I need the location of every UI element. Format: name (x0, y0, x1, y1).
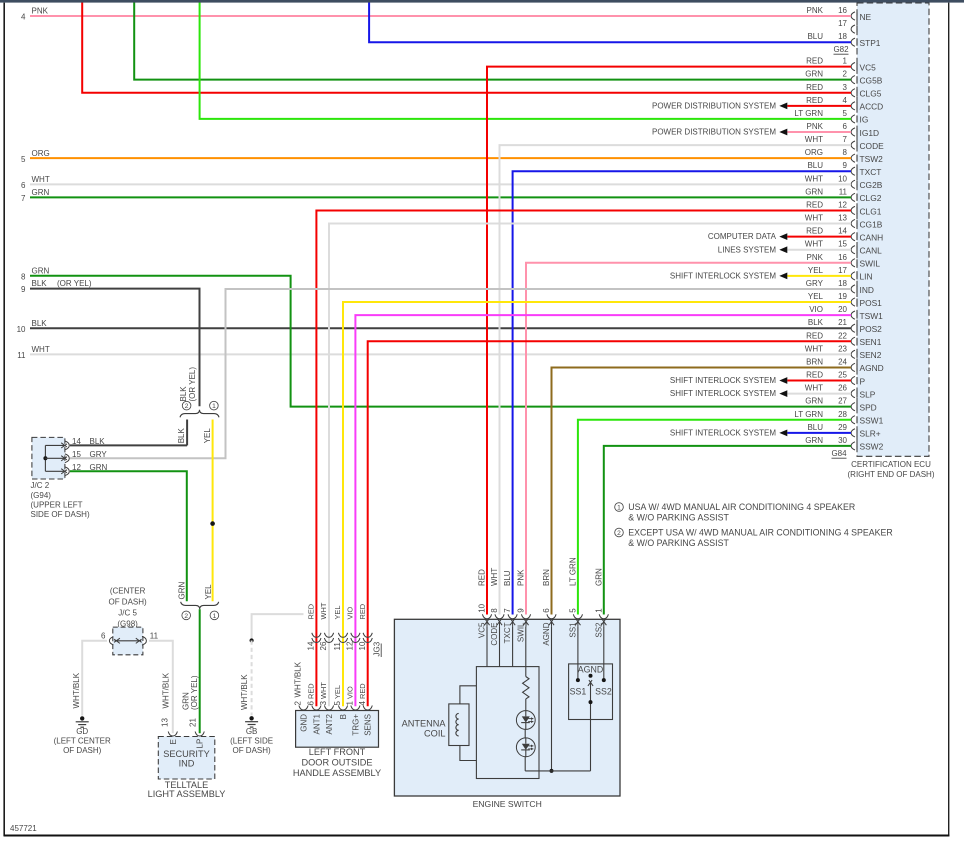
svg-text:457721: 457721 (10, 824, 37, 833)
inline connector JG3 cups (312, 633, 321, 638)
svg-text:1: 1 (843, 57, 848, 66)
ECU pin 1 VC5 (851, 63, 855, 71)
antenna coil top lead (460, 686, 477, 704)
svg-text:BLK: BLK (32, 319, 48, 328)
svg-text:POWER DISTRIBUTION SYSTEM: POWER DISTRIBUTION SYSTEM (652, 101, 776, 110)
svg-text:18: 18 (838, 279, 847, 288)
ECU pin 12 CLG1 (851, 206, 855, 214)
top wire GRN to ECU CG5B (134, 3, 851, 80)
svg-text:17: 17 (838, 19, 847, 28)
svg-text:BLU: BLU (807, 423, 823, 432)
svg-text:SEN1: SEN1 (860, 337, 882, 347)
ECU pin 15 CANL (851, 246, 855, 254)
wire WHT/BLK J/C5 pin6 to ground GD (82, 641, 107, 716)
svg-text:SIDE OF DASH): SIDE OF DASH) (31, 510, 90, 519)
svg-text:5: 5 (21, 155, 26, 164)
svg-text:2: 2 (185, 403, 189, 410)
wire BLK option 2 branch (186, 420, 188, 446)
svg-text:(G94): (G94) (31, 491, 52, 500)
svg-text:RED: RED (806, 227, 823, 236)
wire BLK J/C2 pin14 to option brace (70, 444, 187, 446)
ECU pin 29 SLR+ (851, 429, 855, 437)
svg-text:28: 28 (838, 410, 847, 419)
svg-text:GND: GND (300, 714, 309, 732)
svg-text:10: 10 (478, 603, 487, 612)
svg-text:RED: RED (806, 96, 823, 105)
circled 2 (option split) (182, 401, 191, 410)
svg-text:GRN: GRN (32, 188, 50, 197)
wire 5 ORG to ECU TSW2 (30, 157, 851, 159)
svg-text:USA W/ 4WD MANUAL AIR CONDITIO: USA W/ 4WD MANUAL AIR CONDITIONING 4 SPE… (628, 502, 855, 512)
wire pin14 to COMPUTER DATA arrow (787, 236, 851, 238)
inter-LED line (524, 729, 526, 738)
antenna coil box (449, 704, 469, 746)
svg-text:2: 2 (617, 530, 621, 537)
svg-text:BLK: BLK (177, 428, 186, 444)
svg-text:WHT/BLK: WHT/BLK (161, 672, 170, 708)
option merge overbrace (181, 602, 219, 609)
svg-text:G84: G84 (831, 449, 847, 458)
svg-text:6: 6 (21, 181, 26, 190)
LED 1 (transponder) (516, 711, 535, 730)
svg-text:2: 2 (293, 701, 302, 706)
svg-text:11: 11 (17, 351, 26, 360)
svg-text:POS2: POS2 (860, 324, 883, 334)
resistor (SWIL line) (523, 677, 529, 699)
junction dot GB branch (250, 638, 254, 642)
engine internal line TXCT (512, 627, 514, 667)
ECU pin 2 CG5B (851, 76, 855, 84)
svg-text:(OR YEL): (OR YEL) (188, 367, 197, 402)
svg-text:4: 4 (21, 13, 26, 22)
svg-text:IG1D: IG1D (860, 128, 880, 138)
svg-text:TSW2: TSW2 (860, 154, 884, 164)
ECU pin 19 POS1 (851, 298, 855, 306)
wire CLG1 RED pin12 to door handle ANT1 (316, 210, 851, 706)
svg-text:5: 5 (333, 701, 342, 706)
SS switch block (569, 664, 613, 720)
svg-text:VC5: VC5 (478, 622, 487, 638)
svg-text:WHT: WHT (805, 214, 823, 223)
svg-text:(OR YEL): (OR YEL) (190, 675, 199, 710)
svg-text:3: 3 (319, 701, 328, 706)
svg-text:CG5B: CG5B (860, 75, 883, 85)
ECU pin 17 LIN (851, 272, 855, 280)
ECU pin 9 TXCT (851, 167, 855, 175)
svg-text:LT GRN: LT GRN (794, 410, 823, 419)
antenna coil inductor symbol (456, 713, 459, 736)
svg-text:CODE: CODE (490, 623, 499, 646)
svg-text:YEL: YEL (204, 584, 213, 600)
wire 8 GRN to ECU SPD (30, 276, 851, 407)
ECU pin 16 NE (G82) (851, 12, 855, 20)
svg-text:GRN: GRN (805, 397, 823, 406)
svg-text:WHT: WHT (32, 345, 50, 354)
engine internal line SS2 (603, 627, 605, 681)
svg-text:P: P (860, 376, 866, 386)
svg-text:PNK: PNK (32, 7, 49, 16)
svg-text:RED: RED (806, 331, 823, 340)
svg-text:BLU: BLU (807, 161, 823, 170)
AGND bus up to switch contact (590, 702, 592, 771)
svg-text:BLK: BLK (179, 386, 188, 402)
antenna coil bottom lead (460, 746, 477, 761)
engine switch pin arrows (484, 619, 488, 625)
svg-text:RED: RED (478, 569, 487, 586)
svg-text:23: 23 (838, 344, 847, 353)
J/C 5 internal double arrow (115, 640, 142, 642)
svg-text:12: 12 (838, 200, 847, 209)
svg-text:10: 10 (17, 325, 26, 334)
svg-text:POWER DISTRIBUTION SYSTEM: POWER DISTRIBUTION SYSTEM (652, 128, 776, 137)
wire SSW1 LT GRN pin28 to engine switch SS1 (578, 420, 851, 615)
wire YEL option 1 branch (212, 420, 214, 602)
svg-text:(OR YEL): (OR YEL) (57, 279, 92, 288)
engine switch box (394, 619, 620, 796)
ECU pin 23 SEN2 (851, 350, 855, 358)
svg-text:15: 15 (838, 240, 847, 249)
svg-text:RED: RED (307, 683, 316, 699)
svg-text:LT GRN: LT GRN (794, 109, 823, 118)
svg-text:5: 5 (569, 608, 578, 613)
svg-text:TSW1: TSW1 (860, 311, 884, 321)
wire pin26 to SHIFT INTERLOCK SYSTEM arrow (787, 393, 851, 395)
svg-text:7: 7 (503, 608, 512, 613)
wire 4 PNK to ECU NE (30, 15, 851, 17)
svg-text:POS1: POS1 (860, 298, 883, 308)
svg-text:(LEFT SIDE: (LEFT SIDE (230, 737, 273, 746)
svg-text:1: 1 (213, 613, 217, 620)
top wire LT GRN to ECU IG (200, 3, 851, 119)
svg-text:20: 20 (838, 305, 847, 314)
svg-text:LEFT FRONT: LEFT FRONT (309, 747, 366, 757)
engine internal line AGND (551, 627, 553, 771)
ECU pin 17 (empty) (G82) (851, 25, 855, 33)
svg-text:21: 21 (838, 318, 847, 327)
wire IND GRY pin18 to J/C 2 pin 15 (70, 289, 851, 458)
svg-text:16: 16 (838, 253, 847, 262)
svg-text:AGND: AGND (542, 622, 551, 645)
wire pin6 to POWER DISTRIBUTION SYSTEM arrow (787, 131, 851, 133)
svg-text:PNK: PNK (807, 253, 824, 262)
svg-text:1: 1 (594, 608, 603, 613)
wire pin29 to SHIFT INTERLOCK SYSTEM arrow (787, 432, 851, 434)
svg-text:YEL: YEL (808, 266, 824, 275)
svg-text:WHT/BLK: WHT/BLK (240, 674, 249, 710)
svg-text:PNK: PNK (807, 6, 824, 15)
svg-text:3: 3 (843, 83, 848, 92)
svg-text:ENGINE SWITCH: ENGINE SWITCH (473, 799, 542, 809)
ECU pin 4 ACCD (851, 102, 855, 110)
J/C 5 box (113, 627, 143, 655)
svg-text:1: 1 (346, 701, 355, 706)
svg-text:BLU: BLU (807, 32, 823, 41)
AGND contact dot (589, 674, 593, 678)
svg-text:WHT: WHT (490, 568, 499, 586)
ECU pin 14 CANH (851, 233, 855, 241)
engine internal line VC5 (486, 627, 488, 667)
svg-text:E: E (169, 739, 178, 744)
svg-text:VIO: VIO (346, 686, 355, 699)
svg-text:26: 26 (319, 641, 328, 650)
svg-text:14: 14 (307, 641, 316, 650)
svg-text:SEN2: SEN2 (860, 350, 882, 360)
svg-text:WHT: WHT (319, 602, 328, 619)
svg-text:& W/O PARKING ASSIST: & W/O PARKING ASSIST (628, 513, 729, 523)
svg-text:8: 8 (843, 148, 848, 157)
wire SWIL PNK pin16 to engine switch (526, 263, 851, 615)
certification ECU connector box (right end of dash) (857, 3, 929, 456)
wire pin17 to SHIFT INTERLOCK SYSTEM arrow (787, 275, 851, 277)
wire WHT/BLK J/C5 pin11 to security E (149, 641, 173, 733)
svg-text:CANH: CANH (860, 232, 884, 242)
svg-text:GRN: GRN (805, 436, 823, 445)
svg-text:26: 26 (838, 384, 847, 393)
wire pin4 to POWER DISTRIBUTION SYSTEM arrow (787, 105, 851, 107)
svg-text:SHIFT INTERLOCK SYSTEM: SHIFT INTERLOCK SYSTEM (670, 389, 776, 398)
wire VC5 RED pin1 to engine switch (487, 67, 851, 615)
svg-text:1: 1 (212, 403, 216, 410)
svg-text:STP1: STP1 (860, 38, 881, 48)
security pin E cup (168, 732, 177, 737)
ground GB symbol (249, 716, 253, 720)
door handle pin cups (299, 706, 308, 711)
wire SSW2 GRN pin30 to engine switch SS2 (604, 446, 851, 615)
svg-text:11: 11 (333, 642, 342, 651)
J/C 2 internal bus (44, 445, 46, 471)
top wire BLU to ECU STP1 (369, 3, 851, 43)
wire 11 WHT to ECU SEN2 (30, 353, 851, 355)
left page border (3, 3, 5, 837)
right page border (948, 3, 950, 837)
svg-text:VIO: VIO (346, 607, 355, 620)
svg-text:11: 11 (839, 187, 848, 196)
svg-text:25: 25 (838, 371, 847, 380)
svg-text:SHIFT INTERLOCK SYSTEM: SHIFT INTERLOCK SYSTEM (670, 271, 776, 280)
svg-text:IG: IG (860, 115, 869, 125)
svg-text:8: 8 (21, 272, 26, 281)
svg-text:IND: IND (179, 759, 195, 769)
svg-text:GRY: GRY (90, 450, 108, 459)
svg-text:COMPUTER DATA: COMPUTER DATA (708, 232, 777, 241)
ECU pin 25 P (851, 376, 855, 384)
movable contact arrow (590, 682, 592, 702)
wire CG1B WHT pin13 to door handle ANT2 (329, 224, 851, 707)
svg-text:EXCEPT USA W/ 4WD MANUAL AIR C: EXCEPT USA W/ 4WD MANUAL AIR CONDITIONIN… (628, 528, 892, 538)
svg-text:14: 14 (838, 227, 847, 236)
svg-text:16: 16 (838, 6, 847, 15)
svg-text:7: 7 (843, 135, 848, 144)
svg-text:6: 6 (101, 632, 106, 641)
svg-text:7: 7 (21, 194, 26, 203)
svg-text:HANDLE ASSEMBLY: HANDLE ASSEMBLY (293, 768, 381, 778)
svg-text:SLP: SLP (860, 389, 876, 399)
ECU pin 7 CODE (851, 141, 855, 149)
svg-text:24: 24 (838, 357, 847, 366)
svg-text:TXCT: TXCT (860, 167, 882, 177)
svg-text:VC5: VC5 (860, 62, 877, 72)
ground GD symbol (80, 716, 84, 720)
ECU pin 8 TSW2 (851, 154, 855, 162)
svg-text:SENS: SENS (364, 714, 373, 736)
svg-text:RED: RED (307, 604, 316, 620)
wire 10 BLK to ECU POS2 (30, 327, 851, 329)
wire AGND BRN pin24 to engine switch (552, 367, 852, 614)
svg-text:RED: RED (806, 57, 823, 66)
svg-text:29: 29 (838, 423, 847, 432)
transponder key amplifier module (476, 667, 539, 779)
svg-text:SHIFT INTERLOCK SYSTEM: SHIFT INTERLOCK SYSTEM (670, 428, 776, 437)
circled 1 (option split) (210, 401, 219, 410)
svg-text:(CENTER: (CENTER (110, 587, 146, 596)
svg-text:GRN: GRN (805, 70, 823, 79)
engine internal line SWIL (525, 627, 527, 677)
wire 9 BLK (OR YEL) (30, 289, 200, 407)
svg-text:OF DASH): OF DASH) (63, 746, 102, 755)
ECU pin 5 IG (851, 115, 855, 123)
svg-text:GRN: GRN (594, 568, 603, 586)
security indicator box (158, 737, 215, 780)
bottom page border (4, 835, 950, 837)
svg-text:LIGHT ASSEMBLY: LIGHT ASSEMBLY (148, 789, 226, 799)
svg-text:ORG: ORG (32, 149, 50, 158)
svg-text:SWIL: SWIL (517, 622, 526, 642)
svg-text:SSW2: SSW2 (860, 442, 884, 452)
svg-text:PNK: PNK (807, 122, 824, 131)
svg-text:ANTENNA: ANTENNA (402, 719, 447, 729)
svg-text:J/C 5: J/C 5 (118, 609, 137, 618)
svg-text:RED: RED (358, 683, 367, 699)
J/C 2 pin 14 BLK (45, 444, 64, 446)
svg-text:LT GRN: LT GRN (569, 557, 578, 586)
svg-text:6: 6 (843, 122, 848, 131)
svg-text:GRN: GRN (805, 187, 823, 196)
svg-text:17: 17 (838, 266, 847, 275)
svg-text:21: 21 (189, 718, 198, 727)
svg-text:30: 30 (838, 436, 847, 445)
svg-text:13: 13 (161, 718, 170, 727)
svg-text:RED: RED (806, 83, 823, 92)
svg-text:G82: G82 (833, 45, 849, 54)
svg-text:SECURITY: SECURITY (163, 749, 209, 759)
top border band (0, 0, 964, 3)
svg-text:WHT: WHT (32, 175, 50, 184)
svg-text:WHT: WHT (805, 240, 823, 249)
splice dot on YEL wire (210, 521, 215, 526)
left front door outside handle box (296, 711, 379, 748)
svg-text:SS2: SS2 (595, 687, 612, 697)
svg-text:NE: NE (860, 12, 872, 22)
svg-text:SPD: SPD (860, 402, 877, 412)
engine switch pin cups (482, 614, 491, 619)
ECU pin 20 TSW1 (851, 311, 855, 319)
svg-text:TRG+: TRG+ (351, 714, 360, 736)
svg-text:PNK: PNK (517, 569, 526, 586)
svg-text:12: 12 (346, 641, 355, 650)
option split underbrace (180, 410, 219, 418)
dashed WHT/BLK to GB ground (251, 641, 253, 716)
svg-text:LIN: LIN (860, 272, 873, 282)
svg-text:YEL: YEL (808, 292, 824, 301)
svg-text:SWIL: SWIL (860, 259, 881, 269)
ECU pin 3 CLG5 (851, 89, 855, 97)
svg-text:GD: GD (76, 727, 88, 736)
wire TXCT BLU pin9 to engine switch (513, 171, 851, 614)
svg-text:CLG2: CLG2 (860, 193, 882, 203)
svg-text:WHT: WHT (805, 174, 823, 183)
svg-text:11: 11 (150, 632, 159, 641)
svg-text:9: 9 (843, 161, 848, 170)
svg-text:RED: RED (358, 604, 367, 620)
svg-text:SLR+: SLR+ (860, 429, 881, 439)
svg-text:8: 8 (490, 608, 499, 613)
ECU pin 22 SEN1 (851, 337, 855, 345)
J/C 5 pin 6 cup (109, 637, 113, 645)
svg-text:GB: GB (246, 727, 258, 736)
ECU pin 21 POS2 (851, 324, 855, 332)
svg-text:10: 10 (838, 174, 847, 183)
svg-text:4: 4 (358, 701, 367, 706)
svg-text:5: 5 (843, 109, 848, 118)
ECU pin 10 CG2B (851, 180, 855, 188)
svg-text:CG2B: CG2B (860, 180, 883, 190)
svg-text:OF DASH): OF DASH) (232, 746, 271, 755)
svg-text:22: 22 (838, 331, 847, 340)
svg-text:GRY: GRY (806, 279, 824, 288)
SS2 contact dot (602, 678, 606, 682)
svg-text:RED: RED (806, 371, 823, 380)
svg-text:ANT1: ANT1 (312, 713, 321, 734)
svg-text:VIO: VIO (809, 305, 823, 314)
wire 7 GRN to ECU CLG2 (30, 196, 851, 198)
J/C 2 box (32, 437, 65, 479)
wire GRN (OR YEL) to security indicator LP (199, 609, 201, 733)
svg-text:YEL: YEL (203, 428, 212, 444)
svg-text:OF DASH): OF DASH) (108, 598, 147, 607)
svg-text:15: 15 (72, 450, 81, 459)
svg-text:2: 2 (184, 613, 188, 620)
svg-text:ORG: ORG (805, 148, 823, 157)
svg-text:B: B (339, 714, 348, 719)
svg-text:COIL: COIL (424, 729, 445, 739)
svg-text:SS1: SS1 (569, 622, 578, 638)
svg-text:CG1B: CG1B (860, 219, 883, 229)
svg-text:IND: IND (860, 285, 874, 295)
svg-text:CLG1: CLG1 (860, 206, 882, 216)
wire TSW1 VIO pin20 to door handle TRG+ (355, 315, 851, 706)
svg-text:2: 2 (843, 70, 848, 79)
svg-text:ACCD: ACCD (860, 102, 884, 112)
svg-text:CODE: CODE (860, 141, 885, 151)
ECU pin 13 CG1B (851, 219, 855, 227)
wire SEN1 RED pin22 to door handle SENS (368, 341, 851, 706)
svg-text:BLK: BLK (808, 318, 824, 327)
svg-text:BLU: BLU (503, 570, 512, 586)
LED chain to AGND bus (524, 757, 526, 771)
svg-text:(RIGHT END OF DASH): (RIGHT END OF DASH) (848, 470, 935, 479)
LED 2 (transponder) (516, 738, 535, 757)
svg-text:27: 27 (838, 397, 847, 406)
svg-text:J/C 2: J/C 2 (31, 481, 50, 490)
svg-text:WHT/BLK: WHT/BLK (293, 661, 302, 697)
ECU pin 16 SWIL (851, 259, 855, 267)
J/C 2 pin 15 GRY (45, 457, 64, 459)
wire POS1 YEL pin19 to door handle B (343, 302, 851, 706)
svg-text:10: 10 (358, 641, 367, 650)
svg-text:ANT2: ANT2 (325, 713, 334, 734)
svg-text:(LEFT CENTER: (LEFT CENTER (54, 737, 111, 746)
svg-text:YEL: YEL (333, 606, 342, 620)
